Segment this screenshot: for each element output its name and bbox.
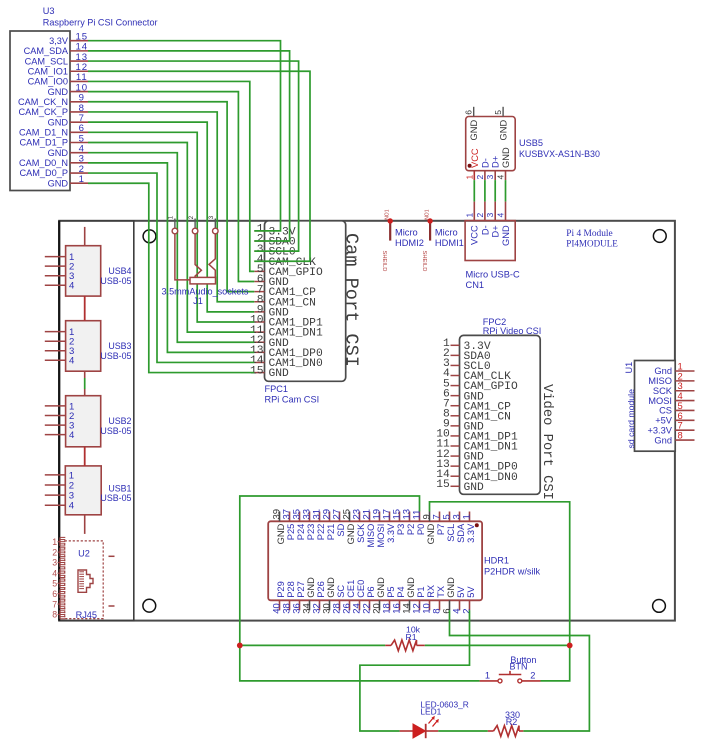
svg-text:HDR1: HDR1 bbox=[484, 556, 509, 566]
svg-text:R1: R1 bbox=[405, 632, 416, 642]
svg-text:P7: P7 bbox=[436, 524, 446, 535]
Video Port CSI label bbox=[539, 384, 555, 500]
svg-text:1: 1 bbox=[462, 514, 473, 519]
connector FPC1 RPi Cam CSI bbox=[250, 221, 346, 405]
svg-text:2: 2 bbox=[475, 175, 485, 180]
svg-text:CAM_D0_N: CAM_D0_N bbox=[19, 158, 68, 168]
svg-text:5V: 5V bbox=[456, 586, 466, 598]
svg-text:+3.3V: +3.3V bbox=[647, 425, 672, 435]
svg-text:GND: GND bbox=[276, 523, 286, 544]
wire USB5 pin3 to CN1 pin3 bbox=[485, 171, 495, 220]
svg-text:Micro: Micro bbox=[435, 228, 458, 238]
svg-text:1: 1 bbox=[79, 174, 85, 185]
svg-text:Cam Port CSI: Cam Port CSI bbox=[341, 233, 362, 367]
svg-text:GND: GND bbox=[269, 368, 290, 380]
resistor R1 10k bbox=[385, 624, 424, 651]
svg-text:GND: GND bbox=[501, 225, 511, 246]
svg-text:RPi Cam CSI: RPi Cam CSI bbox=[265, 395, 320, 405]
wire U3 pin12 to FPC1 pin4 bbox=[88, 71, 310, 261]
svg-text:8: 8 bbox=[678, 430, 683, 441]
svg-text:SDA: SDA bbox=[456, 523, 466, 543]
svg-text:GND: GND bbox=[48, 148, 69, 158]
wire HDR1 pin9 GND net to button/R1 bbox=[425, 502, 570, 681]
svg-text:HDMI2: HDMI2 bbox=[395, 238, 424, 248]
left connector panel bbox=[59, 221, 134, 621]
svg-text:8: 8 bbox=[52, 610, 57, 620]
svg-text:6: 6 bbox=[464, 110, 474, 115]
svg-text:USB-05: USB-05 bbox=[100, 493, 131, 503]
wire U3 pin1 to FPC1 pin15 bbox=[88, 183, 254, 372]
svg-text:U3: U3 bbox=[43, 6, 55, 16]
svg-text:SCL: SCL bbox=[446, 524, 456, 542]
svg-text:Raspberry Pi CSI Connector: Raspberry Pi CSI Connector bbox=[43, 18, 158, 28]
svg-text:Micro: Micro bbox=[395, 228, 418, 238]
svg-text:GND: GND bbox=[376, 577, 386, 598]
svg-text:FPC1: FPC1 bbox=[265, 384, 289, 394]
wire U3 pin2 to FPC1 pin14 bbox=[88, 173, 254, 362]
svg-text:P2: P2 bbox=[406, 524, 416, 535]
Pi 4 Module title bbox=[566, 229, 618, 249]
wire U3 pin9 to FPC1 pin7 bbox=[88, 102, 254, 292]
USB4 top stub bbox=[84, 227, 86, 246]
svg-text:15: 15 bbox=[250, 365, 264, 377]
wire U3 pin10 to FPC1 pin6 bbox=[88, 92, 254, 282]
svg-text:USB-05: USB-05 bbox=[100, 351, 131, 361]
wire HDR1 pin2 5V to LED anode bbox=[360, 610, 470, 731]
svg-text:2: 2 bbox=[530, 671, 535, 681]
svg-text:USB2: USB2 bbox=[108, 416, 131, 426]
svg-text:NO1: NO1 bbox=[384, 209, 390, 220]
svg-text:+5V: +5V bbox=[655, 416, 673, 426]
wire U3 pin4 to FPC1 pin12 bbox=[88, 153, 254, 343]
svg-text:GND: GND bbox=[346, 523, 356, 544]
svg-text:CAM_CK_P: CAM_CK_P bbox=[18, 107, 68, 117]
svg-text:SCK: SCK bbox=[356, 523, 366, 543]
svg-text:MOSI: MOSI bbox=[648, 396, 672, 406]
svg-text:CAM_D0_P: CAM_D0_P bbox=[19, 168, 68, 178]
mounting hole 3 bbox=[143, 599, 156, 612]
svg-text:J1: J1 bbox=[193, 296, 203, 306]
svg-text:SCK: SCK bbox=[653, 386, 673, 396]
svg-text:5: 5 bbox=[493, 110, 503, 115]
svg-text:HDMI1: HDMI1 bbox=[435, 238, 464, 248]
svg-text:15: 15 bbox=[436, 479, 450, 491]
svg-text:R2: R2 bbox=[506, 717, 518, 727]
svg-text:GND: GND bbox=[326, 577, 336, 598]
svg-text:3.3V: 3.3V bbox=[386, 523, 396, 543]
wire USB5 pin2 to CN1 pin2 bbox=[475, 171, 485, 220]
junction node B bbox=[567, 643, 573, 649]
svg-text:4: 4 bbox=[69, 430, 75, 441]
svg-text:4: 4 bbox=[69, 281, 75, 292]
svg-text:P24: P24 bbox=[296, 524, 306, 541]
svg-text:P2HDR w/silk: P2HDR w/silk bbox=[484, 567, 541, 577]
svg-text:GND: GND bbox=[464, 482, 485, 494]
svg-text:P4: P4 bbox=[396, 586, 406, 597]
svg-text:NO1: NO1 bbox=[424, 209, 430, 220]
svg-text:P23: P23 bbox=[306, 524, 316, 541]
svg-text:P5: P5 bbox=[386, 586, 396, 597]
svg-text:CN1: CN1 bbox=[466, 280, 485, 290]
wire U3 pin14 to FPC1 pin2 bbox=[88, 51, 290, 241]
connector CN1 Micro USB-C bbox=[465, 221, 520, 290]
svg-text:4: 4 bbox=[52, 568, 57, 578]
svg-text:GND: GND bbox=[426, 523, 436, 544]
svg-text:2: 2 bbox=[475, 213, 485, 218]
micro HDMI1 shield pin bbox=[421, 209, 464, 271]
svg-text:MISO: MISO bbox=[366, 524, 376, 548]
svg-text:USB4: USB4 bbox=[108, 266, 131, 276]
svg-text:CAM_D1_N: CAM_D1_N bbox=[19, 128, 68, 138]
svg-text:CE0: CE0 bbox=[356, 580, 366, 598]
svg-text:5: 5 bbox=[52, 579, 57, 589]
svg-text:USB-05: USB-05 bbox=[100, 426, 131, 436]
svg-text:1: 1 bbox=[464, 213, 474, 218]
svg-text:P21: P21 bbox=[326, 524, 336, 541]
svg-text:4: 4 bbox=[69, 356, 75, 367]
svg-text:P29: P29 bbox=[276, 581, 286, 598]
svg-text:4: 4 bbox=[496, 175, 506, 180]
svg-text:GND: GND bbox=[498, 120, 508, 141]
svg-text:2: 2 bbox=[52, 547, 57, 557]
svg-text:P3: P3 bbox=[396, 524, 406, 535]
svg-text:3,3V: 3,3V bbox=[49, 36, 69, 46]
Cam Port CSI label bbox=[341, 233, 362, 367]
svg-text:sd card module: sd card module bbox=[626, 389, 636, 449]
svg-text:SHEILD: SHEILD bbox=[381, 251, 387, 272]
wire HDR1 pin11 net to R1/button bbox=[240, 496, 480, 681]
svg-text:1: 1 bbox=[52, 537, 57, 547]
header HDR1 P2HDR w/silk bbox=[268, 509, 540, 614]
wire USB5 pin1 to CN1 pin1 bbox=[464, 171, 474, 220]
svg-text:Video Port CSI: Video Port CSI bbox=[539, 384, 555, 500]
svg-text:2: 2 bbox=[462, 609, 473, 614]
svg-text:GND: GND bbox=[406, 577, 416, 598]
svg-text:D+: D+ bbox=[491, 156, 501, 168]
wire USB5 pin4 to CN1 pin4 bbox=[496, 171, 506, 220]
micro HDMI2 shield pin bbox=[381, 209, 424, 271]
svg-text:P25: P25 bbox=[286, 524, 296, 541]
svg-text:3: 3 bbox=[485, 213, 495, 218]
svg-text:4: 4 bbox=[69, 501, 75, 512]
wire U3 pin11 to FPC1 pin5 bbox=[88, 81, 254, 271]
svg-text:P22: P22 bbox=[316, 524, 326, 541]
wire U3 pin13 to FPC1 pin3 bbox=[88, 61, 299, 251]
svg-text:Gnd: Gnd bbox=[654, 366, 672, 376]
wire U3 pin7 to FPC1 pin9 bbox=[88, 122, 254, 312]
svg-text:GND: GND bbox=[48, 87, 69, 97]
wire U3 pin5 to FPC1 pin11 bbox=[88, 143, 254, 333]
svg-text:SHEILD: SHEILD bbox=[421, 251, 427, 272]
svg-text:P27: P27 bbox=[296, 581, 306, 598]
svg-text:U2: U2 bbox=[78, 548, 90, 558]
svg-text:D-: D- bbox=[480, 225, 490, 235]
svg-text:RJ45: RJ45 bbox=[76, 610, 97, 620]
module U1 sd card module bbox=[624, 361, 695, 452]
svg-text:GND: GND bbox=[48, 178, 69, 188]
svg-text:D+: D+ bbox=[491, 225, 501, 237]
svg-text:KUSBVX-AS1N-B30: KUSBVX-AS1N-B30 bbox=[519, 149, 600, 159]
USB2-USB1 link stub bbox=[84, 447, 86, 466]
connector FPC2 RPi Video CSI bbox=[436, 317, 541, 494]
svg-text:4: 4 bbox=[496, 213, 506, 218]
LED LED1 LED-0603_R bbox=[400, 700, 469, 739]
connector J1 3.5mm audio sockets bbox=[162, 215, 249, 306]
svg-text:P1: P1 bbox=[416, 586, 426, 597]
svg-text:GND: GND bbox=[48, 117, 69, 127]
svg-text:CAM_IO1: CAM_IO1 bbox=[28, 66, 68, 76]
svg-text:CAM_IO0: CAM_IO0 bbox=[28, 77, 68, 87]
svg-text:CAM_SDA: CAM_SDA bbox=[24, 46, 69, 56]
connector USB1 USB-05 bbox=[45, 466, 132, 515]
svg-text:PI4MODULE: PI4MODULE bbox=[566, 238, 618, 248]
svg-text:CS: CS bbox=[659, 406, 672, 416]
mounting hole 2 bbox=[653, 230, 666, 243]
svg-text:USB3: USB3 bbox=[108, 341, 131, 351]
svg-text:GND: GND bbox=[446, 577, 456, 598]
svg-text:CAM_CK_N: CAM_CK_N bbox=[18, 97, 68, 107]
connector USB5 KUSBVX-AS1N-B30 bbox=[464, 107, 600, 171]
wire U3 pin8 to FPC1 pin8 bbox=[88, 112, 254, 302]
svg-text:3: 3 bbox=[485, 175, 495, 180]
svg-text:MOSI: MOSI bbox=[376, 524, 386, 548]
svg-text:U1: U1 bbox=[624, 362, 634, 374]
svg-text:P28: P28 bbox=[286, 581, 296, 598]
connector USB2 USB-05 bbox=[45, 396, 132, 447]
svg-text:Gnd: Gnd bbox=[654, 435, 672, 445]
svg-text:P26: P26 bbox=[316, 581, 326, 598]
svg-text:Pi 4 Module: Pi 4 Module bbox=[566, 229, 612, 239]
svg-text:CAM_SCL: CAM_SCL bbox=[25, 56, 68, 66]
svg-text:1: 1 bbox=[464, 175, 474, 180]
svg-text:CAM_D1_P: CAM_D1_P bbox=[19, 138, 68, 148]
button BTN bbox=[480, 655, 541, 683]
USB4-USB3 link stub bbox=[84, 296, 86, 321]
svg-text:USB5: USB5 bbox=[519, 138, 543, 148]
svg-text:Micro USB-C: Micro USB-C bbox=[466, 270, 521, 280]
svg-text:P6: P6 bbox=[366, 586, 376, 597]
svg-text:3.3V: 3.3V bbox=[466, 523, 476, 543]
svg-text:GND: GND bbox=[469, 120, 479, 141]
svg-text:GND: GND bbox=[306, 577, 316, 598]
svg-text:GND: GND bbox=[501, 147, 511, 168]
svg-text:MISO: MISO bbox=[648, 376, 672, 386]
connector USB3 USB-05 bbox=[45, 321, 132, 372]
USB1 bottom stub bbox=[84, 515, 86, 534]
wire HDR1 pin6 GND to R2 bbox=[450, 610, 590, 731]
svg-text:USB-05: USB-05 bbox=[100, 276, 131, 286]
svg-text:TX: TX bbox=[436, 586, 446, 598]
wire U3 pin15 to FPC1 pin1 bbox=[88, 41, 281, 231]
mounting hole 4 bbox=[653, 600, 666, 613]
svg-text:3.5mmAudio_sockets: 3.5mmAudio_sockets bbox=[162, 287, 249, 297]
svg-text:BTN: BTN bbox=[510, 662, 528, 672]
junction node A bbox=[237, 643, 243, 649]
svg-text:1: 1 bbox=[485, 671, 490, 681]
connector U3 Raspberry Pi CSI Connector bbox=[10, 6, 158, 191]
resistor R2 330 bbox=[488, 710, 524, 736]
svg-text:7: 7 bbox=[52, 599, 57, 609]
svg-text:SC: SC bbox=[336, 585, 346, 598]
svg-text:5V: 5V bbox=[466, 586, 476, 598]
svg-text:RPi Video CSI: RPi Video CSI bbox=[483, 326, 542, 336]
mounting hole 1 bbox=[143, 230, 156, 243]
connector USB4 USB-05 bbox=[45, 246, 132, 296]
USB3-USB2 link with wire bbox=[84, 371, 86, 396]
svg-text:P0: P0 bbox=[416, 524, 426, 535]
svg-text:SD: SD bbox=[336, 523, 346, 536]
wire LED cathode to R2 bbox=[438, 730, 488, 732]
svg-text:CE1: CE1 bbox=[346, 580, 356, 598]
wire U3 pin3 to FPC1 pin13 bbox=[88, 163, 254, 352]
svg-text:6: 6 bbox=[52, 589, 57, 599]
svg-text:LED1: LED1 bbox=[420, 706, 441, 716]
svg-text:VCC: VCC bbox=[470, 225, 480, 245]
Pi 4 module board outline bbox=[59, 221, 675, 621]
svg-text:RX: RX bbox=[426, 585, 436, 598]
svg-text:3: 3 bbox=[52, 558, 57, 568]
wire U3 pin6 to FPC1 pin10 bbox=[88, 132, 254, 322]
svg-text:D-: D- bbox=[480, 158, 490, 168]
connector U2 RJ45 bbox=[52, 537, 114, 620]
